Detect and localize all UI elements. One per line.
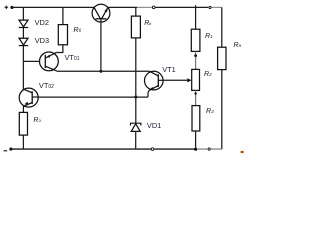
label Rb: [74, 27, 82, 34]
label VT01: [65, 53, 80, 62]
diode VD3: [19, 38, 28, 45]
transistor VT1: [145, 71, 164, 90]
label VD3: [35, 36, 49, 45]
wire right column corner from top rail: [221, 7, 223, 47]
label Re: [33, 117, 40, 124]
label R3: [206, 108, 214, 115]
wire VT1 base to potentiometer wiper: [163, 79, 188, 81]
wire top rail to right corner (gray): [212, 6, 222, 8]
terminal - (minus): [4, 150, 8, 152]
wire top rail left: [14, 6, 95, 8]
wire diode branch down to VT02 collector: [22, 46, 24, 90]
wire Rn down to rail: [221, 70, 223, 150]
node dot VD1 top: [134, 96, 137, 99]
wire node to VT01 base: [23, 60, 39, 62]
node open circle on top rail right: [209, 6, 211, 8]
transistor VT01: [40, 52, 59, 71]
wire y71 (VT01 collector to VT1 collector): [56, 70, 150, 73]
terminal circle top-left: [11, 6, 14, 9]
wire y97 (VT02 base to VT1 emitter): [38, 96, 148, 98]
pass transistor (top): [92, 4, 110, 22]
bottom rail left: [12, 148, 151, 150]
wire R3 to rail: [195, 131, 197, 149]
resistor Rn (load): [218, 47, 226, 69]
watermark orange dash: [241, 151, 244, 153]
resistor Rk top lead: [135, 7, 137, 16]
zener diode VD1: [131, 123, 141, 131]
wire pass transistor base down: [100, 19, 102, 72]
node terminal circle on bottom rail: [151, 148, 154, 151]
label R1: [205, 33, 213, 40]
wire R2-R3 (gray): [195, 90, 197, 105]
resistor R1: [191, 29, 200, 51]
node dot base/collector junction: [99, 70, 102, 73]
node dot below R2: [194, 92, 196, 94]
potentiometer R2: [192, 69, 200, 90]
resistor Re bottom lead: [22, 135, 24, 149]
resistor Rb: [58, 25, 67, 45]
label VD1: [147, 121, 161, 130]
label VD2: [35, 18, 49, 27]
label R2: [204, 71, 212, 78]
wire diode branch top: [22, 7, 24, 19]
resistor Rb bottom lead: [56, 45, 63, 53]
node dot bottom rail R3: [194, 148, 197, 151]
resistor Rb top lead: [62, 7, 64, 24]
node terminal circle on top rail: [152, 6, 155, 9]
label VT1: [162, 65, 176, 74]
wire VD1 down to rail: [135, 131, 137, 149]
wire top rail right: [155, 6, 208, 8]
wire top rail gray segment: [137, 6, 152, 8]
resistor R3: [192, 106, 200, 131]
label Rk: [144, 20, 151, 27]
label Rn: [234, 42, 242, 49]
wiper arrowhead: [187, 78, 191, 82]
wire top rail mid: [108, 6, 137, 8]
node open circle on bottom rail: [208, 148, 210, 150]
wire R1-R2 (gray): [195, 51, 197, 69]
terminal + (input plus): [5, 6, 9, 10]
wire Rk down across: [135, 38, 137, 123]
divider top lead: [195, 5, 197, 29]
transistor VT02: [19, 88, 38, 107]
node dot below R1: [194, 54, 197, 57]
bottom rail gray to right corner: [211, 148, 222, 150]
bottom rail gray segment: [197, 148, 207, 150]
wire VT02 collector up: [22, 89, 24, 90]
bottom rail mid: [154, 148, 194, 150]
wire VT1 emitter elbow: [148, 90, 149, 97]
resistor Rk: [131, 16, 140, 38]
diode VD2: [19, 20, 28, 27]
resistor Re: [19, 112, 27, 135]
terminal circle bottom-left: [10, 148, 13, 151]
label VT02: [39, 81, 54, 90]
wire between VD2 VD3: [22, 28, 24, 38]
wire VT02 emitter down: [22, 107, 24, 113]
